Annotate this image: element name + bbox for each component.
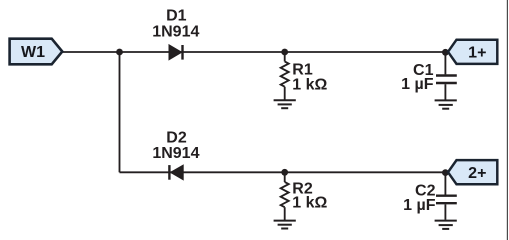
svg-text:1 kΩ: 1 kΩ <box>292 76 327 93</box>
connector W1 <box>10 39 63 65</box>
svg-text:W1: W1 <box>21 44 45 61</box>
wire: vertical from top net down to bottom net <box>119 52 121 172</box>
svg-text:D2: D2 <box>166 129 187 146</box>
diode D2 <box>169 165 183 180</box>
svg-text:1 µF: 1 µF <box>403 197 436 214</box>
ground (C1) <box>435 100 457 108</box>
capacitor C1 <box>436 52 457 99</box>
diode D1 <box>169 45 183 60</box>
junction: top net / R1 <box>281 49 288 56</box>
svg-text:1+: 1+ <box>468 45 486 62</box>
svg-text:1N914: 1N914 <box>152 24 199 41</box>
svg-text:D1: D1 <box>166 8 187 25</box>
capacitor C2 <box>436 173 457 220</box>
svg-text:1N914: 1N914 <box>152 145 199 162</box>
junction: bottom net / C2 <box>442 169 449 176</box>
ground (C2) <box>435 221 457 229</box>
frame edge (right figure border) <box>506 0 508 240</box>
resistor R2 <box>281 172 289 220</box>
ground (R2) <box>274 221 296 229</box>
svg-text:2+: 2+ <box>468 165 486 182</box>
connector 2+ <box>448 160 497 184</box>
wire: bottom horizontal net to C2/2+ <box>120 171 449 173</box>
junction: top net / C1 <box>442 49 449 56</box>
wire: main top horizontal net W1 to C1/1+ <box>62 51 448 53</box>
junction: bottom net / R2 <box>281 169 288 176</box>
resistor R1 <box>281 52 289 100</box>
junction: top net / vertical branch <box>116 49 123 56</box>
svg-text:1 µF: 1 µF <box>401 76 434 93</box>
connector 1+ <box>448 40 497 64</box>
ground (R1) <box>274 100 296 108</box>
svg-text:1 kΩ: 1 kΩ <box>292 195 327 212</box>
